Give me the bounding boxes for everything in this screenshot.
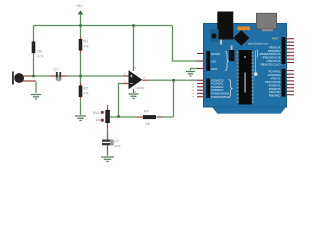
svg-text:PD4/T0/XCK: PD4/T0/XCK bbox=[265, 80, 281, 84]
Arduino ANALOG IN brace bbox=[229, 80, 233, 98]
resistor R6 bbox=[32, 42, 36, 54]
Arduino right top labels bbox=[258, 45, 281, 66]
component lead wires (halo) bbox=[23, 37, 162, 151]
resistor R1 bbox=[79, 39, 83, 51]
svg-text:C1: C1 bbox=[54, 68, 59, 72]
potentiometer RV1 bbox=[105, 110, 110, 123]
Arduino analog pin numbers bbox=[192, 80, 195, 99]
svg-text:PD1/TXD: PD1/TXD bbox=[269, 90, 280, 94]
Arduino jack pin bbox=[220, 40, 222, 45]
svg-text:PB4/MISO: PB4/MISO bbox=[268, 49, 281, 53]
svg-text:AREF: AREF bbox=[272, 37, 279, 41]
microphone body bbox=[14, 73, 24, 83]
resistor R2 bbox=[79, 86, 83, 98]
svg-text:LM386: LM386 bbox=[135, 86, 145, 90]
wire nets (halo pass) bbox=[34, 14, 199, 157]
Arduino right bottom labels bbox=[265, 70, 281, 98]
svg-text:~PD6/AIN0: ~PD6/AIN0 bbox=[267, 73, 281, 77]
svg-text:47k: 47k bbox=[84, 91, 90, 95]
component lead wires (core) bbox=[23, 37, 162, 151]
Arduino right bottom header bbox=[282, 69, 286, 97]
svg-text:47k: 47k bbox=[84, 44, 90, 48]
resistor R4 bbox=[143, 115, 156, 119]
svg-text:www.Simulino.com: www.Simulino.com bbox=[248, 42, 268, 45]
svg-text:~PB3/MOSI/OC2A: ~PB3/MOSI/OC2A bbox=[258, 52, 281, 56]
Arduino left analog header bbox=[206, 79, 210, 99]
Arduino mounting hole bbox=[211, 33, 216, 38]
svg-text:R4: R4 bbox=[144, 110, 149, 114]
svg-text:100: 100 bbox=[145, 122, 151, 126]
Arduino power selector patch bbox=[210, 29, 219, 42]
Arduino silkscreen arc bbox=[256, 50, 259, 58]
svg-text:10k: 10k bbox=[96, 118, 101, 122]
Arduino power jack bbox=[217, 12, 233, 40]
ground symbols (core) bbox=[31, 72, 195, 162]
Arduino POWER brace bbox=[225, 52, 229, 71]
svg-text:PB0/ICP1/CLKO: PB0/ICP1/CLKO bbox=[261, 62, 281, 66]
svg-text:PC5/ADC5/SCL: PC5/ADC5/SCL bbox=[211, 95, 230, 99]
Arduino analog labels bbox=[211, 78, 230, 99]
svg-text:4.7k: 4.7k bbox=[38, 54, 44, 58]
svg-text:~PD3/INT1: ~PD3/INT1 bbox=[267, 83, 281, 87]
Arduino small white part bbox=[254, 73, 257, 76]
node junction rail/power bbox=[79, 24, 82, 27]
svg-text:~PB1/OC1A: ~PB1/OC1A bbox=[266, 59, 281, 63]
svg-text:GND: GND bbox=[211, 67, 217, 71]
op-amp U1 LM386 bbox=[129, 70, 143, 89]
ground symbols (halo) bbox=[31, 72, 195, 162]
svg-text:R2: R2 bbox=[84, 87, 89, 91]
Arduino silkscreen vertical line bbox=[255, 51, 257, 76]
power +6V arrow symbol bbox=[78, 11, 83, 15]
svg-text:R1: R1 bbox=[84, 40, 89, 44]
Arduino pin stub wires (halo) bbox=[197, 39, 294, 97]
Arduino right top header bbox=[282, 37, 286, 64]
microphone plate bbox=[12, 72, 14, 85]
svg-text:~PB2/SS/OC1B: ~PB2/SS/OC1B bbox=[261, 56, 280, 60]
svg-text:PD7/AIN1: PD7/AIN1 bbox=[269, 70, 281, 74]
Arduino right pin numbers bbox=[288, 44, 291, 95]
svg-text:RV1: RV1 bbox=[93, 111, 100, 115]
Arduino USB pins shadow bbox=[262, 29, 273, 31]
Arduino UNO board body bbox=[204, 24, 287, 108]
Arduino USB connector bbox=[257, 13, 277, 29]
svg-text:PD0/RXD: PD0/RXD bbox=[269, 94, 281, 98]
svg-text:R6: R6 bbox=[38, 50, 43, 54]
node junction rail/op-amp V+ bbox=[132, 24, 135, 27]
Arduino crystal diamond bbox=[233, 30, 249, 45]
svg-text:C2: C2 bbox=[115, 139, 119, 143]
svg-text:10uF: 10uF bbox=[114, 144, 121, 148]
node junction signal R1/R2 bbox=[79, 75, 82, 78]
node junction mic/R6 bbox=[32, 75, 35, 78]
Arduino electrolytic capacitor bbox=[231, 46, 233, 51]
svg-text:PB5/SCK: PB5/SCK bbox=[269, 45, 281, 49]
node junction output/feedback bbox=[172, 79, 175, 82]
svg-text:~PD5/T1: ~PD5/T1 bbox=[270, 77, 281, 81]
svg-text:RESET: RESET bbox=[211, 52, 221, 56]
svg-text:+5V: +5V bbox=[211, 60, 216, 64]
Arduino ATmega328 chip bbox=[239, 50, 252, 105]
wire nets (core pass) bbox=[34, 14, 199, 157]
Arduino pin stub wires (core) bbox=[197, 39, 294, 97]
svg-text:PD2/INT0: PD2/INT0 bbox=[269, 87, 281, 91]
Arduino bottom tab bbox=[213, 107, 286, 113]
Arduino orange LED bbox=[238, 27, 251, 31]
svg-text:+6V: +6V bbox=[76, 4, 83, 8]
node junction feedback/-in bbox=[117, 115, 120, 118]
capacitor C2 bbox=[102, 140, 113, 142]
Arduino left power header bbox=[206, 51, 210, 71]
